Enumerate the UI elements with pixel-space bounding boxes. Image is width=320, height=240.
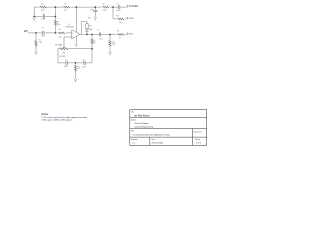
svg-text:OUT: OUT xyxy=(129,33,134,35)
wire gain set vertical lower xyxy=(91,49,93,63)
resistor R5 input shunt xyxy=(35,41,37,46)
wire bottom shunt resistor upper lead xyxy=(75,63,77,66)
svg-text:1K: 1K xyxy=(119,37,122,39)
svg-text:P1 100K: P1 100K xyxy=(55,45,63,47)
node output out xyxy=(109,34,111,36)
wire out load resistor lower lead xyxy=(109,46,111,52)
pin OUT xyxy=(127,32,128,34)
svg-text:R9: R9 xyxy=(93,40,95,42)
op-amp U1 xyxy=(72,30,80,39)
svg-text:47uF: 47uF xyxy=(90,9,94,11)
node input shunt xyxy=(35,32,37,34)
svg-text:10K: 10K xyxy=(64,10,68,12)
svg-text:100uF: 100uF xyxy=(116,10,120,12)
pin LED+ xyxy=(127,17,128,19)
wire output to coupling cap xyxy=(101,33,117,35)
svg-text:LED+: LED+ xyxy=(129,18,135,20)
title block xyxy=(130,110,207,146)
svg-text:U1: U1 xyxy=(68,24,70,26)
svg-text:47pF: 47pF xyxy=(89,29,93,31)
wire left vertical of bias loop xyxy=(33,7,35,16)
svg-text:R7: R7 xyxy=(117,30,119,32)
ground bottom shunt xyxy=(74,79,77,82)
svg-text:+: + xyxy=(97,9,98,11)
svg-text:10K: 10K xyxy=(59,36,63,38)
svg-text:the Mid-Boost: the Mid-Boost xyxy=(134,114,150,117)
svg-text:VR1: VR1 xyxy=(62,52,65,54)
ground opamp xyxy=(75,44,78,47)
wire pot left lead xyxy=(58,49,60,63)
wire top rail segment 1 xyxy=(34,6,39,8)
wire bottom shunt resistor lower lead xyxy=(75,71,77,79)
wire supply filter cap upper lead xyxy=(94,7,96,10)
wire opamp V+ pin xyxy=(75,7,77,32)
node bias loop left xyxy=(33,16,35,18)
ground supply filter xyxy=(94,17,97,20)
svg-text:IN: IN xyxy=(24,31,27,33)
pin POWER xyxy=(127,5,128,7)
svg-text:100K: 100K xyxy=(112,44,117,46)
node top rail LED junction xyxy=(112,6,114,8)
ground output load xyxy=(108,52,111,55)
resistor R2 xyxy=(64,6,71,8)
wire top rail segment 5 xyxy=(120,6,127,8)
resistor R6 middle series xyxy=(58,32,65,34)
svg-text:R4: R4 xyxy=(57,21,59,23)
potentiometer VR1 zigzag xyxy=(60,48,68,50)
wire top rail segment 4 xyxy=(110,6,118,8)
svg-text:R11: R11 xyxy=(77,66,80,68)
svg-text:R2: R2 xyxy=(64,3,66,5)
svg-text:R8: R8 xyxy=(116,16,118,18)
svg-text:R1: R1 xyxy=(41,3,43,5)
ground bias loop xyxy=(33,17,36,20)
svg-text:2. Max gain is 20dB at 1kHz ap: 2. Max gain is 20dB at 1kHz approx. xyxy=(41,119,73,122)
resistor R3 xyxy=(103,6,110,8)
wire bias loop bottom left xyxy=(34,16,43,18)
svg-text:Revision: Revision xyxy=(131,139,138,141)
svg-text:NOTES:: NOTES: xyxy=(41,114,49,116)
capacitor C8 feedback xyxy=(85,30,88,31)
wire bottom rail left xyxy=(58,62,66,64)
resistor R11 bottom shunt xyxy=(74,66,76,71)
wire supply filter cap lower lead xyxy=(94,12,96,18)
wire bottom rail right xyxy=(85,62,92,64)
wire bias dropper lower lead xyxy=(54,26,56,33)
node top rail R2 junction xyxy=(55,6,57,8)
svg-text:R5: R5 xyxy=(39,39,41,41)
svg-text:C3: C3 xyxy=(97,30,99,32)
svg-text:U1 NE5534P: U1 NE5534P xyxy=(65,27,74,29)
svg-text:26 Oct 2021: 26 Oct 2021 xyxy=(152,142,165,145)
svg-text:47uF: 47uF xyxy=(41,19,45,21)
capacitor C5 output coupling xyxy=(99,32,100,36)
wire pot right lead xyxy=(68,48,92,50)
node bias loop right xyxy=(55,16,57,18)
wire feedback lower lead xyxy=(86,29,88,30)
svg-text:680P: 680P xyxy=(64,66,68,68)
svg-text:2.2M: 2.2M xyxy=(39,42,43,44)
svg-text:Author: Author xyxy=(131,118,136,121)
resistor R8 LED xyxy=(117,18,124,20)
svg-text:C2: C2 xyxy=(42,13,44,15)
svg-text:R10: R10 xyxy=(112,41,115,43)
resistor R4 bias dropper xyxy=(54,20,56,25)
svg-text:C8: C8 xyxy=(83,60,85,62)
svg-text:R6: R6 xyxy=(59,29,61,31)
svg-text:D:\Users\Chuck\Docs Eric Mid: D:\Users\Chuck\Docs Eric Mid Boost v1.1.… xyxy=(133,133,171,136)
wire feedback cap to output xyxy=(86,31,88,34)
capacitor C7 bottom right xyxy=(84,61,85,65)
node top rail V+ junction xyxy=(75,6,77,8)
wire opamp output lead xyxy=(80,33,99,35)
svg-text:R12: R12 xyxy=(88,18,91,20)
pin IN xyxy=(25,30,28,33)
svg-text:POWER: POWER xyxy=(129,5,139,8)
svg-text:1 of 1: 1 of 1 xyxy=(196,143,202,145)
capacitor C6 bottom left xyxy=(66,61,67,65)
wire input line to series resistor xyxy=(44,32,57,34)
node top rail filter junction xyxy=(94,6,96,8)
svg-text:R3: R3 xyxy=(102,3,104,5)
resistor R7 output series xyxy=(117,34,124,36)
svg-text:C5: C5 xyxy=(116,3,118,5)
wire top rail segment 2 xyxy=(47,6,64,8)
svg-text:Title: Title xyxy=(131,110,134,113)
svg-text:1.1: 1.1 xyxy=(132,143,136,145)
resistor R12 feedback box xyxy=(86,24,88,29)
wire LED branch right lead xyxy=(125,18,127,20)
wire noninverting input xyxy=(64,37,72,48)
svg-text:Document: Document xyxy=(194,130,202,133)
wire bottom rail mid xyxy=(67,62,83,64)
node input bias xyxy=(55,32,57,34)
capacitor C1 bias xyxy=(43,15,44,19)
wire input line from pin xyxy=(28,32,42,34)
wire bias loop bottom right xyxy=(45,16,55,18)
ground input shunt xyxy=(34,52,37,55)
wire bias loop ground stub xyxy=(33,16,35,19)
capacitor C2 input coupling xyxy=(43,31,44,35)
resistor R10 output load xyxy=(109,41,111,46)
capacitor C3 supply rail xyxy=(119,5,120,9)
wire top rail segment 3 xyxy=(71,6,102,8)
wire output resistor to pin xyxy=(125,33,128,35)
svg-text:470K: 470K xyxy=(41,10,46,12)
resistor R1 xyxy=(40,6,47,8)
wire LED branch left lead xyxy=(113,18,117,20)
wire feedback left vertical xyxy=(82,22,88,35)
svg-text:4K7: 4K7 xyxy=(119,22,122,24)
wire LED branch vertical xyxy=(112,7,114,19)
capacitor C4 supply filter xyxy=(93,10,97,11)
svg-text:C7: C7 xyxy=(65,60,67,62)
svg-text:4K7: 4K7 xyxy=(93,42,96,44)
svg-text:Date: Date xyxy=(152,138,156,141)
wire input shunt resistor lower lead xyxy=(35,46,37,51)
wire bias dropper upper lead xyxy=(54,17,56,21)
resistor R9 gain set xyxy=(91,39,93,44)
wire gain set vertical upper xyxy=(91,34,93,38)
node bottom rail xyxy=(75,62,77,64)
svg-text:100K: 100K xyxy=(57,24,62,26)
svg-text:22K: 22K xyxy=(77,68,81,70)
wire opamp V- pin xyxy=(75,36,77,43)
node feedback cap xyxy=(86,34,88,36)
svg-text:2.2uF: 2.2uF xyxy=(82,66,86,68)
node output feedback xyxy=(91,34,93,36)
svg-text:Chuck H. Moses: Chuck H. Moses xyxy=(134,123,149,125)
svg-text:Sheets: Sheets xyxy=(195,138,200,141)
svg-text:Celestial Engineering: Celestial Engineering xyxy=(134,126,153,129)
node pot right xyxy=(91,48,93,50)
wire series resistor to opamp xyxy=(66,32,73,34)
svg-text:C1: C1 xyxy=(41,28,43,30)
title block text xyxy=(131,110,202,144)
wire input shunt resistor upper lead xyxy=(35,33,37,41)
svg-text:(BOOST): (BOOST) xyxy=(60,56,67,58)
wire gain set vertical mid xyxy=(91,44,93,49)
svg-text:47K: 47K xyxy=(89,25,93,27)
svg-text:100R: 100R xyxy=(103,10,108,12)
wire right vertical of bias loop xyxy=(54,7,56,16)
potentiometer VR1 wiper arrow xyxy=(63,47,65,49)
svg-text:0.1uF: 0.1uF xyxy=(41,36,45,38)
svg-text:File: File xyxy=(131,130,134,132)
wire out load resistor upper lead xyxy=(109,34,111,40)
svg-text:1. U1 can be any low noise sin: 1. U1 can be any low noise single opamp … xyxy=(41,116,88,119)
svg-text:4.7uF: 4.7uF xyxy=(99,38,103,40)
